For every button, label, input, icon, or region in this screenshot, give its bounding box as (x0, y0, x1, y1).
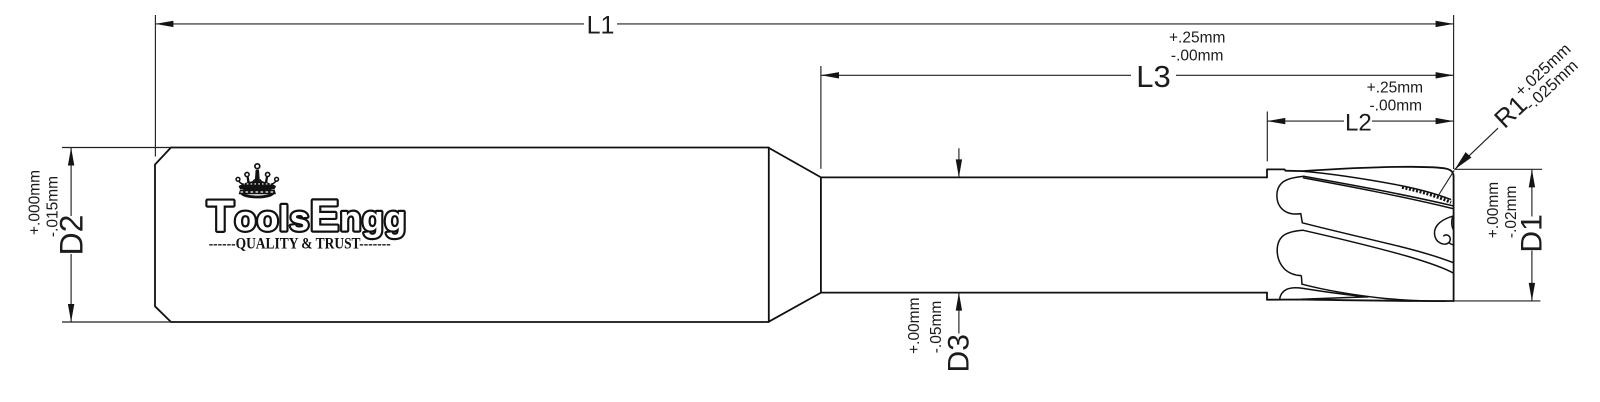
svg-text:+.000mm: +.000mm (27, 170, 44, 235)
arrowhead L2 left (1267, 118, 1285, 124)
end tooth inner line (1449, 243, 1454, 245)
arrowhead L1 left (155, 21, 173, 27)
end tooth top hook (1452, 216, 1453, 229)
flute C lower return line (1302, 297, 1369, 299)
svg-text:-.015mm: -.015mm (45, 176, 62, 237)
arrowhead D3 top (956, 159, 962, 177)
extension line L2 left (1266, 112, 1268, 162)
neck top edge (821, 176, 1267, 178)
extension line L3 left (820, 66, 822, 169)
land stripe line S1 (1304, 176, 1454, 206)
arrowhead L3 right (1436, 72, 1454, 78)
svg-text:L1: L1 (587, 12, 615, 40)
serrated cutting edge dashes (1402, 187, 1451, 202)
svg-text:+.00mm: +.00mm (1485, 182, 1502, 238)
logo crown right spike (265, 177, 268, 184)
flute A rounded end (1277, 176, 1304, 222)
logo crown rim (241, 189, 273, 197)
arrowhead D2 bottom (68, 304, 74, 322)
logo crown left spike (247, 177, 250, 184)
logo crown center spike flare right (260, 179, 264, 182)
flute A lower helical edge (1302, 223, 1453, 263)
svg-text:D1: D1 (1516, 214, 1549, 252)
logo crown arc left outer (239, 181, 244, 184)
arrowhead L1 right (1436, 21, 1454, 27)
dimension line L2 (1267, 120, 1453, 122)
svg-text:-.05mm: -.05mm (928, 301, 945, 354)
logo crown upper band dashes (241, 186, 273, 188)
dimension line L3 (821, 74, 1454, 76)
svg-text:L3: L3 (1136, 59, 1170, 94)
head top silhouette with corner radius (1302, 167, 1454, 177)
arrowhead D3 bottom (956, 293, 962, 311)
svg-text:D3: D3 (943, 334, 976, 372)
logo crown pearl midright (266, 172, 270, 176)
logo crown upper band (240, 185, 275, 189)
flute B upper helical edge (1303, 230, 1453, 273)
flute B lower helical edge (1302, 284, 1445, 301)
extension line D1 top (1454, 168, 1542, 170)
extension line D1 bottom (1454, 300, 1541, 302)
taper cone top edge (769, 148, 821, 178)
arrowhead D1 bottom (1529, 283, 1535, 301)
end tooth gash (1434, 216, 1452, 244)
extension line right shared (1453, 15, 1455, 169)
flute B rounded end (1277, 230, 1303, 284)
svg-text:-.00mm: -.00mm (1171, 47, 1224, 64)
head left bottom step (1266, 293, 1268, 300)
svg-text:+.25mm: +.25mm (1169, 29, 1225, 46)
label R1 with tolerances (1487, 40, 1586, 136)
cone base vertical edge (820, 177, 822, 292)
svg-text:ToolsEngg: ToolsEngg (207, 192, 406, 241)
arrowhead D2 top (68, 148, 74, 166)
logo crown pearl top (255, 164, 260, 169)
svg-text:------QUALITY & TRUST-------: ------QUALITY & TRUST------- (209, 236, 391, 253)
head left top step (1267, 169, 1302, 177)
dimension line L1 (155, 23, 1453, 25)
head bottom edge (1267, 300, 1454, 302)
leader line R1 (1438, 128, 1498, 196)
logo crown pearl outleft (236, 177, 240, 181)
logo crown center spike (255, 170, 260, 183)
logo crown arc right outer (271, 181, 276, 184)
extension line D2 bottom (62, 321, 171, 323)
svg-text:-.00mm: -.00mm (1370, 98, 1423, 115)
logo crown cap (239, 181, 276, 188)
logo crown center spike flare left (251, 179, 255, 182)
arrowhead D1 top (1529, 169, 1535, 187)
logo crown lower band (239, 190, 276, 194)
head right face (1453, 177, 1455, 302)
logo crown cap dots (243, 183, 272, 185)
svg-text:-.02mm: -.02mm (1503, 186, 1520, 239)
extension line L1 left (154, 15, 156, 157)
dimension line D3 (958, 148, 960, 333)
logo crown lower band dashes (241, 191, 275, 193)
dimension line D2 (70, 148, 72, 323)
svg-text:+.00mm: +.00mm (906, 297, 923, 353)
svg-text:L2: L2 (1345, 110, 1372, 137)
arrowhead R1 (1455, 152, 1472, 169)
extension line D2 top (62, 147, 171, 149)
flute C upper arc (1280, 288, 1368, 300)
arrowhead L3 left (821, 72, 839, 78)
taper cone bottom edge (769, 293, 821, 322)
shank body outline (155, 148, 769, 323)
svg-text:+.25mm: +.25mm (1367, 79, 1423, 96)
neck bottom edge (821, 292, 1267, 294)
flute land line T2 (1303, 171, 1451, 199)
land stripe line S2 (1304, 178, 1454, 209)
arrowhead L2 right (1436, 118, 1454, 124)
logo crown pearl outright (275, 177, 279, 181)
dimension line D1 (1531, 169, 1533, 301)
logo crown pearl midleft (245, 172, 249, 176)
